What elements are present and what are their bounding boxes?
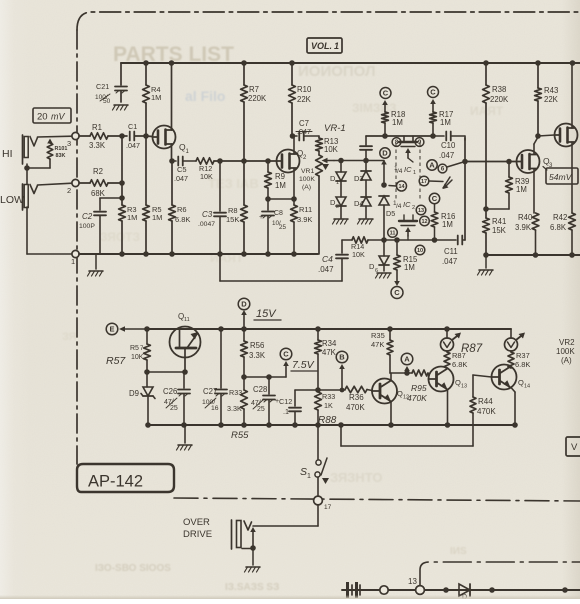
resistor R56 3.3K [241,329,266,377]
wire C12/R33 base row [295,389,345,391]
svg-text:R1: R1 [92,123,102,132]
node junction Q1 source node [169,158,175,164]
svg-text:.0047: .0047 [198,221,215,228]
node junction C8 bottom [265,251,271,257]
node junction C27 top [218,326,224,332]
node junction R14/D5/D6 [381,237,387,243]
wire Q12 collector row [390,372,412,374]
svg-text:ИОИОПОЛ: ИОИОПОЛ [298,63,376,80]
svg-text:S: S [300,466,307,478]
svg-text:25: 25 [257,406,265,413]
pin 14 of IC1 [389,181,407,191]
wire R3 column [121,136,123,254]
wire 15V arrow [241,310,247,329]
node junction R38 top [483,60,489,66]
svg-text:V: V [571,442,578,453]
label R57 handwritten [106,355,126,367]
wire dash-dot border, bottom edge from AP-142 box to right [174,498,580,501]
wire Q2 source [293,168,295,199]
svg-text:R5: R5 [130,345,139,352]
svg-text:R7: R7 [249,85,259,94]
node junction C26 bottom [181,422,187,428]
node junction R33col bottom [241,422,247,428]
svg-text:10: 10 [417,248,423,254]
wire 7.5V node run [244,376,286,378]
node junction Q4 drain rail [570,60,576,66]
svg-text:1: 1 [336,180,339,186]
svg-text:D4: D4 [354,199,364,208]
svg-text:100P: 100P [79,223,95,230]
svg-text:C12: C12 [279,397,292,406]
svg-text:LOW: LOW [0,194,24,206]
node C mark at IC2 [429,193,439,203]
node junction loop to rail [338,422,344,428]
node junction diode D bottom right [489,587,495,593]
label 54mV test box [543,167,578,185]
diode D6 [369,240,389,274]
svg-text:470K: 470K [477,407,496,416]
svg-text:.047: .047 [126,141,140,150]
resistor R44 470K [470,375,496,446]
resistor R1 3.3K [79,123,127,150]
resistor R2 68K [79,167,122,198]
resistor R33 3.3K (R55) [227,377,247,425]
node B mark [336,351,348,390]
svg-text:AP-142: AP-142 [88,473,143,491]
resistor R39 1M [506,162,530,210]
svg-text:C2: C2 [82,212,93,221]
capacitor C11 .047 [442,236,465,267]
pin 9 of IC1 [415,138,424,147]
svg-text:R8: R8 [228,206,238,215]
wire node D arrow [381,160,387,183]
node A mark [401,353,413,373]
wire dash-dot schematic border, left edge [76,30,78,464]
svg-text:C28: C28 [253,385,267,394]
node junction Q11 emitter node [182,369,188,375]
wire ground bus (terminal 1 row) [79,253,318,255]
diode D5 [379,196,395,240]
wire Q11 emitter ground drop [177,425,193,450]
svg-text:.047: .047 [439,151,454,160]
svg-text:C: C [383,89,389,98]
svg-text:D9: D9 [129,389,139,398]
label VOL box right edge [566,437,580,456]
node junction R9/C8 [265,196,271,202]
svg-text:R42: R42 [553,213,567,222]
svg-text:mV: mV [51,112,65,122]
resistor R13 10K [316,136,339,155]
node junction R11 bottom [291,251,297,257]
svg-text:C5: C5 [177,165,187,174]
svg-text:R56: R56 [250,341,264,350]
node junction C12 bottom [292,422,298,428]
transistor Q3 (FET) [517,150,554,173]
svg-text:10K: 10K [352,250,365,259]
resistor R36 470K [345,386,372,412]
svg-text:D: D [241,300,247,309]
svg-text:C21: C21 [96,82,109,91]
svg-text:IC: IC [403,200,411,209]
svg-text:47K: 47K [371,340,384,349]
wire pin17 stub with contact arrow [429,177,452,189]
svg-text:ІЗО-ЅВО ЅІООЅ: ІЗО-ЅВО ЅІООЅ [95,563,171,574]
svg-text:(A): (A) [302,184,311,191]
svg-text:E: E [109,325,114,334]
resistor R4 1M [143,63,162,136]
svg-text:C: C [394,288,400,297]
transistor Q14 [492,365,531,390]
node junction jack sleeves [24,165,30,171]
node junction R16 bottom [432,237,438,243]
capacitor C1 .047 [126,122,146,150]
wire VR1 wiper run [334,160,384,162]
svg-text:6.8K: 6.8K [452,360,467,369]
node junction Q2 source node [291,196,297,202]
terminal 17 [314,496,332,511]
node junction LED1 rail [444,326,450,332]
svg-text:14: 14 [524,384,530,390]
node D supply mark at IC1 [380,148,390,158]
svg-text:A: A [429,161,435,170]
wire Q14 emitter [511,388,515,426]
op-amp U1 1/4 IC1 [394,136,420,199]
node junction R3 bottom [119,251,125,257]
pin 10 of IC2 [415,245,425,255]
wire R9 bottom to Q2 source [268,198,294,200]
node junction rail2 ground [483,252,489,258]
svg-text:7.5V: 7.5V [292,359,315,371]
transistor Q13 [429,367,468,392]
node junction R39/R38 column [483,206,489,212]
svg-text:.047: .047 [318,265,334,274]
svg-text:R87: R87 [452,351,466,360]
wire V+ top supply rail [121,62,580,64]
svg-text:470K: 470K [407,393,427,403]
svg-text:22K: 22K [544,95,559,104]
LED 2 indicator [505,333,526,352]
wire R101 bottom to sleeve [27,167,50,169]
capacitor C4 .047 [318,240,348,281]
resistor R41 15K [483,217,507,255]
pin 8 of IC1 [392,138,401,147]
svg-text:20: 20 [37,112,48,123]
svg-text:14: 14 [398,184,405,190]
wire Q3 drain [534,137,538,154]
svg-text:3.3K: 3.3K [89,141,106,150]
svg-text:C: C [432,194,438,203]
diode D2 [330,197,346,218]
node junction C28 top [266,374,272,380]
capacitor C26 47/25 [163,372,190,425]
svg-text:A: A [404,355,410,364]
wire C2 top [100,198,122,210]
node junction S1 column rail [315,422,321,428]
wire dash-dot schematic border, top edge [77,12,580,30]
svg-text:D5: D5 [386,209,395,218]
svg-text:50: 50 [103,98,111,105]
svg-text:.047: .047 [174,174,188,183]
node junction C3 top [217,158,223,164]
resistor R8 15K [226,161,247,254]
svg-text:6.8K: 6.8K [515,360,530,369]
svg-text:17: 17 [421,179,427,185]
svg-text:R9: R9 [275,172,285,181]
resistor R3 1M [119,205,138,222]
node junction R40 bottom [533,252,539,258]
svg-text:B: B [339,353,345,362]
node junction R43 top [535,60,541,66]
resistor R12 10K [196,158,277,181]
node junction D5 column [381,182,387,188]
resistor R17 1M [430,99,454,136]
wire Q13 emitter [447,390,449,426]
svg-text:R34: R34 [322,339,337,348]
svg-text:R33: R33 [229,388,242,397]
svg-text:1: 1 [413,170,416,176]
svg-text:3.9K: 3.9K [297,215,312,224]
svg-text:R43: R43 [544,86,558,95]
wire Q4 gate [538,135,555,136]
svg-text:R44: R44 [478,397,493,406]
node junction R4 top [143,60,149,66]
node junction R10/C7/Q2 drain [290,133,296,139]
svg-text:ІИЅ: ІИЅ [450,546,467,557]
svg-text:IC: IC [404,165,412,174]
pin 13 of IC2 [416,205,426,215]
diode D1 [330,161,346,198]
capacitor C8 10/25 [259,199,287,254]
svg-text:2: 2 [412,205,415,211]
AP-142 block label box [77,464,174,492]
node junction R17/C10 [430,133,436,139]
resistor R88 1K (R33 column) [315,390,336,425]
node junction R7/R12 crossing [241,158,247,164]
svg-text:C3: C3 [202,210,213,219]
svg-text:6.8K: 6.8K [175,215,190,224]
svg-text:1M: 1M [440,118,451,127]
node junction R4/C1/R5 gate node [143,133,149,139]
wire Q14 base row [473,375,492,377]
node junction R42 bottom [569,252,575,258]
svg-text:68K: 68K [91,189,106,198]
transistor Q11 [170,312,201,372]
node junction R1/C1/R3 [119,133,125,139]
terminal 13 [408,577,424,594]
svg-text:ІЗ.ЅАЗЅ ЅЗ: ІЗ.ЅАЗЅ ЅЗ [225,582,279,593]
node junction Q3 drain / Q4 gate [535,133,541,139]
node C supply mark at 7.5V [280,348,292,377]
svg-text:OVER: OVER [183,517,210,528]
node junction R2 to R3 column [119,180,125,186]
potentiometer VR1 100K(A) [299,155,334,254]
svg-text:1M: 1M [151,93,161,102]
capacitor C9 coupling to IC1 [360,136,385,161]
node junction R34 bottom [340,388,345,393]
wire terminal 17 down to output jack [253,505,318,526]
diode D4 [354,197,371,218]
svg-text:3.3K: 3.3K [227,404,242,413]
wire HI tip to terminal 3 [38,135,73,138]
svg-text:C10: C10 [441,141,456,150]
node junction R33 top row [315,387,321,393]
terminal open circle bottom [380,586,388,594]
svg-text:D3: D3 [354,174,364,183]
svg-text:C1: C1 [128,122,137,131]
transistor Q2 (FET) [277,149,308,173]
node C supply mark lower [391,287,403,299]
label OVER DRIVE [183,517,212,540]
svg-text:R2: R2 [93,167,103,176]
svg-text:R11: R11 [299,205,312,214]
node junction R7 top [241,60,247,66]
svg-text:17: 17 [324,504,332,511]
wire Q3 source [533,169,535,213]
ground below D4 [358,219,374,224]
label 20mV test box [33,108,71,123]
node junction R18 bottom [382,133,388,139]
svg-text:25: 25 [170,405,178,412]
resistor R15 1M [394,240,418,272]
svg-text:R35: R35 [371,331,385,340]
node junction C28 bottom [266,422,272,428]
capacitor C10 .047 [433,132,465,161]
node junction Q12 emitter rail [388,422,394,428]
resistor R16 1M [431,204,455,240]
node junction Q13 emitter rail [445,422,451,428]
svg-text:R55: R55 [231,430,249,441]
resistor R11 3.9K [291,199,313,254]
label R55 handwritten [231,430,249,441]
svg-text:C11: C11 [444,247,458,256]
node E mark [106,323,118,335]
wire lower feedback row [384,239,456,241]
wire LOW tip to terminal 2 [38,183,73,185]
node junction R34 top [315,326,321,332]
svg-text:ЗЯЗНТО: ЗЯЗНТО [330,470,382,485]
resistor R43 22K [535,63,559,136]
wire rail corner to LED2 [510,329,512,338]
terminal 2 [67,179,79,195]
wire jack sleeve down to terminal 1 row [27,164,72,254]
svg-text:1M: 1M [127,213,137,222]
svg-text:1M: 1M [442,220,453,229]
svg-text:R95: R95 [411,383,427,393]
svg-text:/4: /4 [396,203,402,210]
svg-text:C27: C27 [203,387,217,396]
svg-text:470K: 470K [346,403,365,412]
svg-text:VOL.: VOL. [311,41,332,51]
svg-text:220K: 220K [248,94,267,103]
resistor R34 47K [315,329,337,390]
label HI input [2,148,13,160]
svg-text:C: C [283,350,289,359]
ground stub near C2 [88,254,104,276]
pin 11 of IC2 [388,228,398,238]
svg-text:R36: R36 [349,393,364,402]
wire bottom-section supply rail [147,328,511,330]
jack LOW tip contact [23,184,38,210]
svg-text:1: 1 [307,473,311,480]
node junction C2 tee [119,195,125,201]
svg-text:ЗЯ: ЗЯ [62,331,77,343]
node junction A arrow [404,370,410,376]
svg-text:R33: R33 [322,392,335,401]
jack OVER DRIVE output [232,520,252,549]
terminal 3 [67,132,79,148]
svg-text:C8: C8 [274,210,283,217]
svg-text:1M: 1M [392,118,403,127]
svg-text:R57: R57 [106,355,126,367]
wire IC1 input node [385,135,433,137]
svg-text:+: + [259,214,263,221]
resistor R95 470K [407,370,429,403]
svg-text:13: 13 [408,577,417,586]
node junction 7.5V node [241,374,247,380]
node junction D1 top [338,158,344,164]
svg-text:220K: 220K [490,95,509,104]
capacitor C27 100/16 [202,329,227,425]
capacitor C28 47/25 [251,377,279,425]
svg-text:6.8K: 6.8K [550,223,567,232]
svg-text:VR-1: VR-1 [324,123,346,134]
svg-text:15V: 15V [256,308,277,320]
terminal 1 [71,250,79,266]
node junction R5 bottom [143,251,149,257]
svg-text:DRIVE: DRIVE [183,529,212,540]
label VR2 100K (A) [556,338,575,365]
node junction R9 top / Q2 gate [265,158,271,164]
resistor R5 1M [143,136,163,254]
resistor R14 10K [342,237,384,259]
svg-text:R37: R37 [516,351,530,360]
wire rail to node E [119,326,147,332]
svg-text:47K: 47K [322,348,337,357]
node junction C3 bottom [217,251,223,257]
ground below D6 [376,273,392,278]
svg-text:3.3K: 3.3K [249,351,266,360]
label VR-1 handwritten [324,123,346,134]
wire Q4 drain [571,63,573,128]
label 7.5V [291,359,317,371]
node A output mark of IC1 [427,160,437,170]
node junction D9 bottom [145,422,151,428]
node junction R57 top [144,326,150,332]
LED 1 indicator [441,329,462,351]
ground below bottom-right rail [478,255,494,275]
svg-text:2: 2 [336,204,339,210]
pin 12 of IC2 [420,216,430,226]
wire Q1 source [171,144,173,161]
transistor Q12 [372,379,409,404]
svg-text:100K: 100K [556,347,575,356]
svg-text:1M: 1M [152,213,162,222]
resistor R87 6.8K [444,351,467,369]
svg-text:C26: C26 [163,387,177,396]
node junction diode D bottom left [443,587,449,593]
resistor R9 1M [265,161,286,199]
svg-text:.1: .1 [283,407,289,416]
svg-text:10K: 10K [324,145,339,154]
switch S1 [300,425,329,496]
svg-text:2: 2 [67,186,71,195]
transistor Q1 (FET) [153,126,190,156]
ground below C21 [113,105,129,110]
svg-text:1M: 1M [516,185,527,194]
svg-text:16: 16 [211,405,219,412]
op-amp U2 1/4 IC2 [393,200,417,240]
ghost bleed-through text (decorative) [62,43,504,593]
